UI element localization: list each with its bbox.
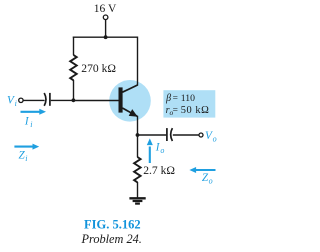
wire capacitor to output terminal: [173, 134, 199, 136]
wire capacitor to base node: [51, 99, 74, 101]
transistor Q1 base bar: [119, 87, 123, 112]
capacitor C2 straight plate: [166, 128, 168, 141]
wire left branch lower: [73, 80, 75, 101]
capacitor C1 curved plate: [44, 93, 46, 106]
wire top rail: [73, 36, 138, 38]
wire left branch upper: [73, 37, 75, 56]
input terminal Vi: [19, 98, 23, 102]
transistor Q1 body circle: [109, 80, 151, 122]
arrow Zo: [189, 167, 215, 173]
svg-text:16 V: 16 V: [94, 3, 117, 15]
arrow Io: [147, 138, 153, 163]
svg-text:FIG. 5.162: FIG. 5.162: [84, 217, 141, 231]
arrow Zi: [14, 144, 39, 150]
wire output node to capacitor: [138, 134, 167, 136]
transistor Q1 collector diagonal: [122, 85, 137, 92]
wire input to capacitor: [23, 99, 44, 101]
wire resistor to ground: [137, 182, 139, 198]
supply terminal: [103, 15, 108, 20]
arrow Ii: [21, 109, 47, 115]
svg-text:ro=50 kΩ: ro=50 kΩ: [166, 105, 210, 117]
wire base: [74, 100, 119, 102]
resistor RE 2.7k zigzag: [134, 157, 141, 182]
svg-text:270 kΩ: 270 kΩ: [81, 62, 116, 75]
output terminal Vo: [199, 133, 203, 137]
wire collector vertical: [137, 37, 139, 86]
junction output node: [136, 133, 140, 137]
capacitor C1 straight plate: [49, 93, 51, 106]
wire output node to resistor: [137, 135, 139, 157]
capacitor C2 curved plate: [171, 128, 173, 141]
wire supply stub: [105, 20, 107, 38]
wire emitter vertical: [137, 116, 139, 136]
junction supply node: [104, 35, 108, 39]
transistor Q1 emitter diagonal with arrowhead: [122, 108, 137, 117]
info box: [163, 90, 215, 117]
svg-text:Problem 24.: Problem 24.: [81, 232, 142, 246]
svg-text:β=110: β=110: [165, 93, 195, 104]
svg-text:2.7 kΩ: 2.7 kΩ: [143, 164, 175, 177]
resistor R1 270k zigzag: [70, 55, 77, 80]
ground: [129, 198, 145, 203]
junction base node: [72, 98, 76, 102]
